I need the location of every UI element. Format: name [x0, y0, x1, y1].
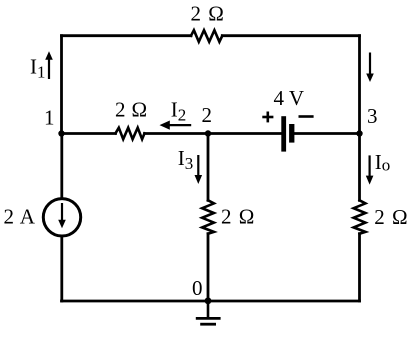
resistor R12 zigzag — [116, 128, 145, 140]
current source IS1 circle — [43, 199, 80, 236]
battery V1 long plate — [281, 116, 286, 151]
node 1 junction dot — [58, 130, 64, 136]
svg-text:2 A: 2 A — [4, 205, 36, 229]
wire right vertical (top to node 3) — [358, 36, 361, 134]
arrow I3 (down, node 2 branch) — [195, 155, 203, 184]
arrow I1 (up, left side) — [45, 51, 53, 79]
arrow down (top right branch) — [366, 53, 374, 83]
wire middle resistor to bottom — [207, 234, 210, 301]
svg-text:2 Ω: 2 Ω — [115, 98, 148, 122]
wire node2 down to middle resistor — [207, 134, 210, 201]
svg-text:1: 1 — [44, 106, 55, 130]
wire node3 down to right resistor — [358, 134, 361, 201]
wire top-right horizontal — [222, 34, 359, 37]
wire bottom horizontal — [62, 300, 360, 303]
resistor R30 zigzag vertical — [354, 200, 366, 233]
svg-text:2 Ω: 2 Ω — [221, 205, 255, 229]
resistor R20 zigzag vertical — [202, 200, 214, 233]
battery V1 short plate — [289, 124, 294, 143]
svg-text:2 Ω: 2 Ω — [191, 2, 225, 26]
current source arrow — [58, 203, 66, 228]
svg-text:0: 0 — [192, 276, 203, 300]
wire current source to bottom — [60, 236, 63, 301]
wire middle resistor to node 2 — [145, 132, 209, 135]
ground bar 2 — [200, 323, 216, 326]
node 2 junction dot — [205, 130, 211, 136]
ground stub — [207, 301, 210, 318]
battery plus sign — [262, 112, 273, 123]
node 0 junction dot — [205, 297, 212, 304]
wire node1 to middle resistor — [62, 132, 116, 135]
arrow I2 (left, above middle wire) — [160, 121, 192, 130]
svg-text:2 Ω: 2 Ω — [374, 205, 408, 229]
arrow Io (down, node 3 branch) — [366, 155, 374, 184]
svg-text:2: 2 — [202, 103, 213, 127]
wire node2 to battery — [208, 132, 281, 135]
wire right resistor to bottom — [358, 234, 361, 301]
wire node1 down to current source — [60, 134, 63, 199]
node 3 junction dot — [356, 130, 362, 136]
resistor R-top zigzag — [191, 30, 222, 42]
battery minus sign — [299, 115, 314, 118]
ground bar 1 — [196, 317, 221, 320]
svg-text:3: 3 — [367, 104, 378, 128]
wire left vertical (top to node 1) — [60, 36, 63, 134]
wire top-left horizontal — [62, 34, 192, 37]
wire battery to node3 — [294, 132, 359, 135]
svg-text:4 V: 4 V — [274, 86, 305, 110]
